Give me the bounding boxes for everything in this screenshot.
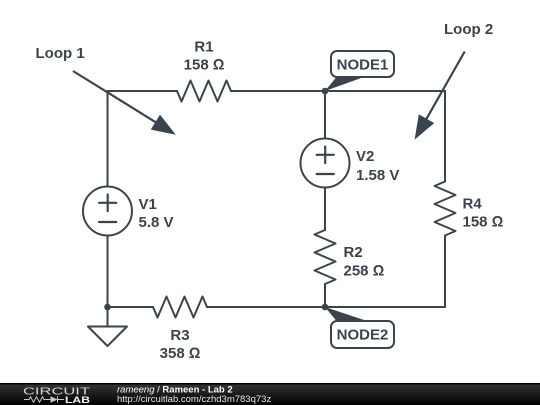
CircuitLab logo resistor-diode glyph [24, 396, 64, 402]
svg-text:LAB: LAB [65, 395, 90, 405]
wire bottom right [325, 306, 445, 308]
wire left rail upper [107, 91, 109, 187]
wire bottom middle [207, 306, 325, 308]
svg-text:R1: R1 [194, 39, 213, 56]
svg-text:R2: R2 [344, 244, 363, 261]
resistor R1 [177, 81, 231, 102]
annotation arrow Loop 2 [415, 52, 465, 140]
voltage source V1 [83, 187, 132, 236]
node label NODE1 [325, 51, 394, 91]
svg-text:NODE1: NODE1 [337, 57, 389, 74]
svg-text:http://circuitlab.com/czhd3m78: http://circuitlab.com/czhd3m783q73z [117, 394, 271, 405]
wire R2 to bottom [324, 284, 326, 307]
wire top right horizontal [325, 90, 445, 92]
svg-text:158 Ω: 158 Ω [463, 214, 504, 231]
svg-text:V1: V1 [139, 196, 157, 213]
wire left rail lower [107, 236, 109, 308]
svg-text:NODE2: NODE2 [337, 327, 389, 344]
node junction dot NODE2 [322, 304, 329, 311]
node label NODE2 [325, 307, 394, 348]
svg-text:1.58 V: 1.58 V [356, 167, 399, 184]
resistor R4 [435, 182, 456, 236]
wire bottom left [108, 306, 154, 308]
svg-text:358 Ω: 358 Ω [160, 345, 201, 362]
svg-text:R3: R3 [170, 327, 189, 344]
node junction dot ground [104, 304, 111, 311]
svg-text:258 Ω: 258 Ω [344, 263, 385, 280]
node junction dot NODE1 [322, 88, 329, 95]
wire V2 to R2 [324, 188, 326, 231]
svg-text:Loop 2: Loop 2 [444, 21, 493, 38]
footer bar [0, 383, 540, 405]
wire top left horizontal [108, 90, 178, 92]
ground [88, 307, 127, 346]
voltage source V2 [301, 139, 350, 188]
svg-text:V2: V2 [356, 148, 374, 165]
wire right rail upper [444, 91, 446, 182]
annotation arrow Loop 1 [73, 71, 176, 135]
svg-text:5.8 V: 5.8 V [139, 214, 174, 231]
resistor R3 [153, 297, 207, 318]
resistor R2 [315, 230, 336, 284]
wire top middle horizontal [231, 90, 325, 92]
svg-text:R4: R4 [463, 196, 483, 213]
wire middle rail upper [324, 91, 326, 139]
svg-text:Loop 1: Loop 1 [36, 45, 85, 62]
svg-text:158 Ω: 158 Ω [184, 57, 225, 74]
wire right rail lower [444, 236, 446, 308]
